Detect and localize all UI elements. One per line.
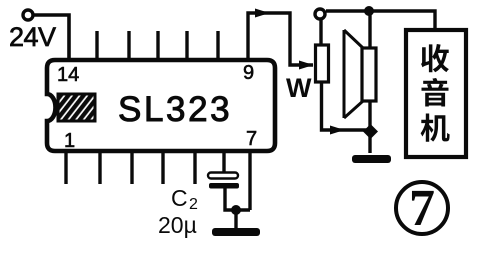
wire terminal to radio box bbox=[326, 11, 435, 30]
label 机 bbox=[421, 114, 450, 142]
wire junction top to speaker bbox=[368, 11, 371, 48]
node junction speaker bottom bbox=[363, 124, 378, 139]
pin top 5 bbox=[185, 31, 188, 59]
pin bottom 3 bbox=[130, 152, 133, 184]
node junction top bbox=[364, 6, 374, 16]
arrowhead on pin9 top wire bbox=[255, 9, 270, 18]
svg-text:20µ: 20µ bbox=[158, 212, 197, 238]
label 音 bbox=[422, 78, 449, 107]
capacitor C2 top plate bbox=[208, 173, 238, 179]
pin top 2 bbox=[95, 31, 98, 59]
svg-text:W: W bbox=[286, 73, 312, 103]
potentiometer W body bbox=[316, 45, 329, 82]
wire IC pin to capacitor C2 bbox=[222, 152, 225, 174]
pin top 3 bbox=[127, 31, 130, 59]
pin top 6 bbox=[216, 31, 219, 59]
svg-text:2: 2 bbox=[189, 196, 198, 213]
radio box 收音机 bbox=[406, 30, 466, 157]
ground C2 bbox=[212, 228, 260, 236]
wire pin 7 down bbox=[248, 152, 251, 210]
svg-text:1: 1 bbox=[64, 130, 75, 152]
arrowhead bottom wire bbox=[330, 126, 345, 135]
terminal top (speaker input) bbox=[315, 9, 325, 19]
capacitor C2 bottom plate bbox=[209, 183, 239, 189]
wire pot bottom to junction bbox=[322, 82, 369, 130]
IC notch hatched bar bbox=[58, 94, 95, 121]
wire junction to ground bbox=[234, 210, 237, 228]
label 收 bbox=[421, 44, 449, 72]
svg-text:C: C bbox=[171, 185, 188, 211]
wire pin 9 to potentiometer wiper bbox=[248, 13, 313, 65]
wire speaker bottom to ground bbox=[368, 101, 371, 153]
wire 24V to pin 14 bbox=[34, 15, 70, 60]
svg-text:7: 7 bbox=[246, 128, 257, 150]
arrowhead wiper bbox=[299, 61, 314, 70]
svg-text:14: 14 bbox=[57, 64, 79, 86]
figure number 7 circle bbox=[396, 182, 448, 234]
pin bottom 4 bbox=[161, 152, 164, 184]
wire terminal down to potentiometer top bbox=[319, 19, 322, 45]
speaker LS cone bbox=[344, 30, 363, 118]
pin bottom 5 bbox=[193, 152, 196, 184]
speaker LS driver bbox=[362, 48, 376, 101]
node junction C2/pin7 bbox=[231, 205, 241, 215]
terminal 24V input bbox=[23, 10, 33, 20]
pin bottom 1 bbox=[64, 152, 67, 184]
svg-text:SL323: SL323 bbox=[118, 90, 232, 129]
svg-text:7: 7 bbox=[409, 180, 435, 237]
pin top 4 bbox=[156, 31, 159, 59]
wire capacitor bottom to junction bbox=[225, 188, 250, 210]
pin bottom 2 bbox=[98, 152, 101, 184]
svg-text:9: 9 bbox=[243, 62, 254, 84]
ground speaker bbox=[352, 155, 391, 163]
IC U1 SL323 body bbox=[47, 60, 275, 151]
svg-text:24V: 24V bbox=[9, 22, 56, 52]
